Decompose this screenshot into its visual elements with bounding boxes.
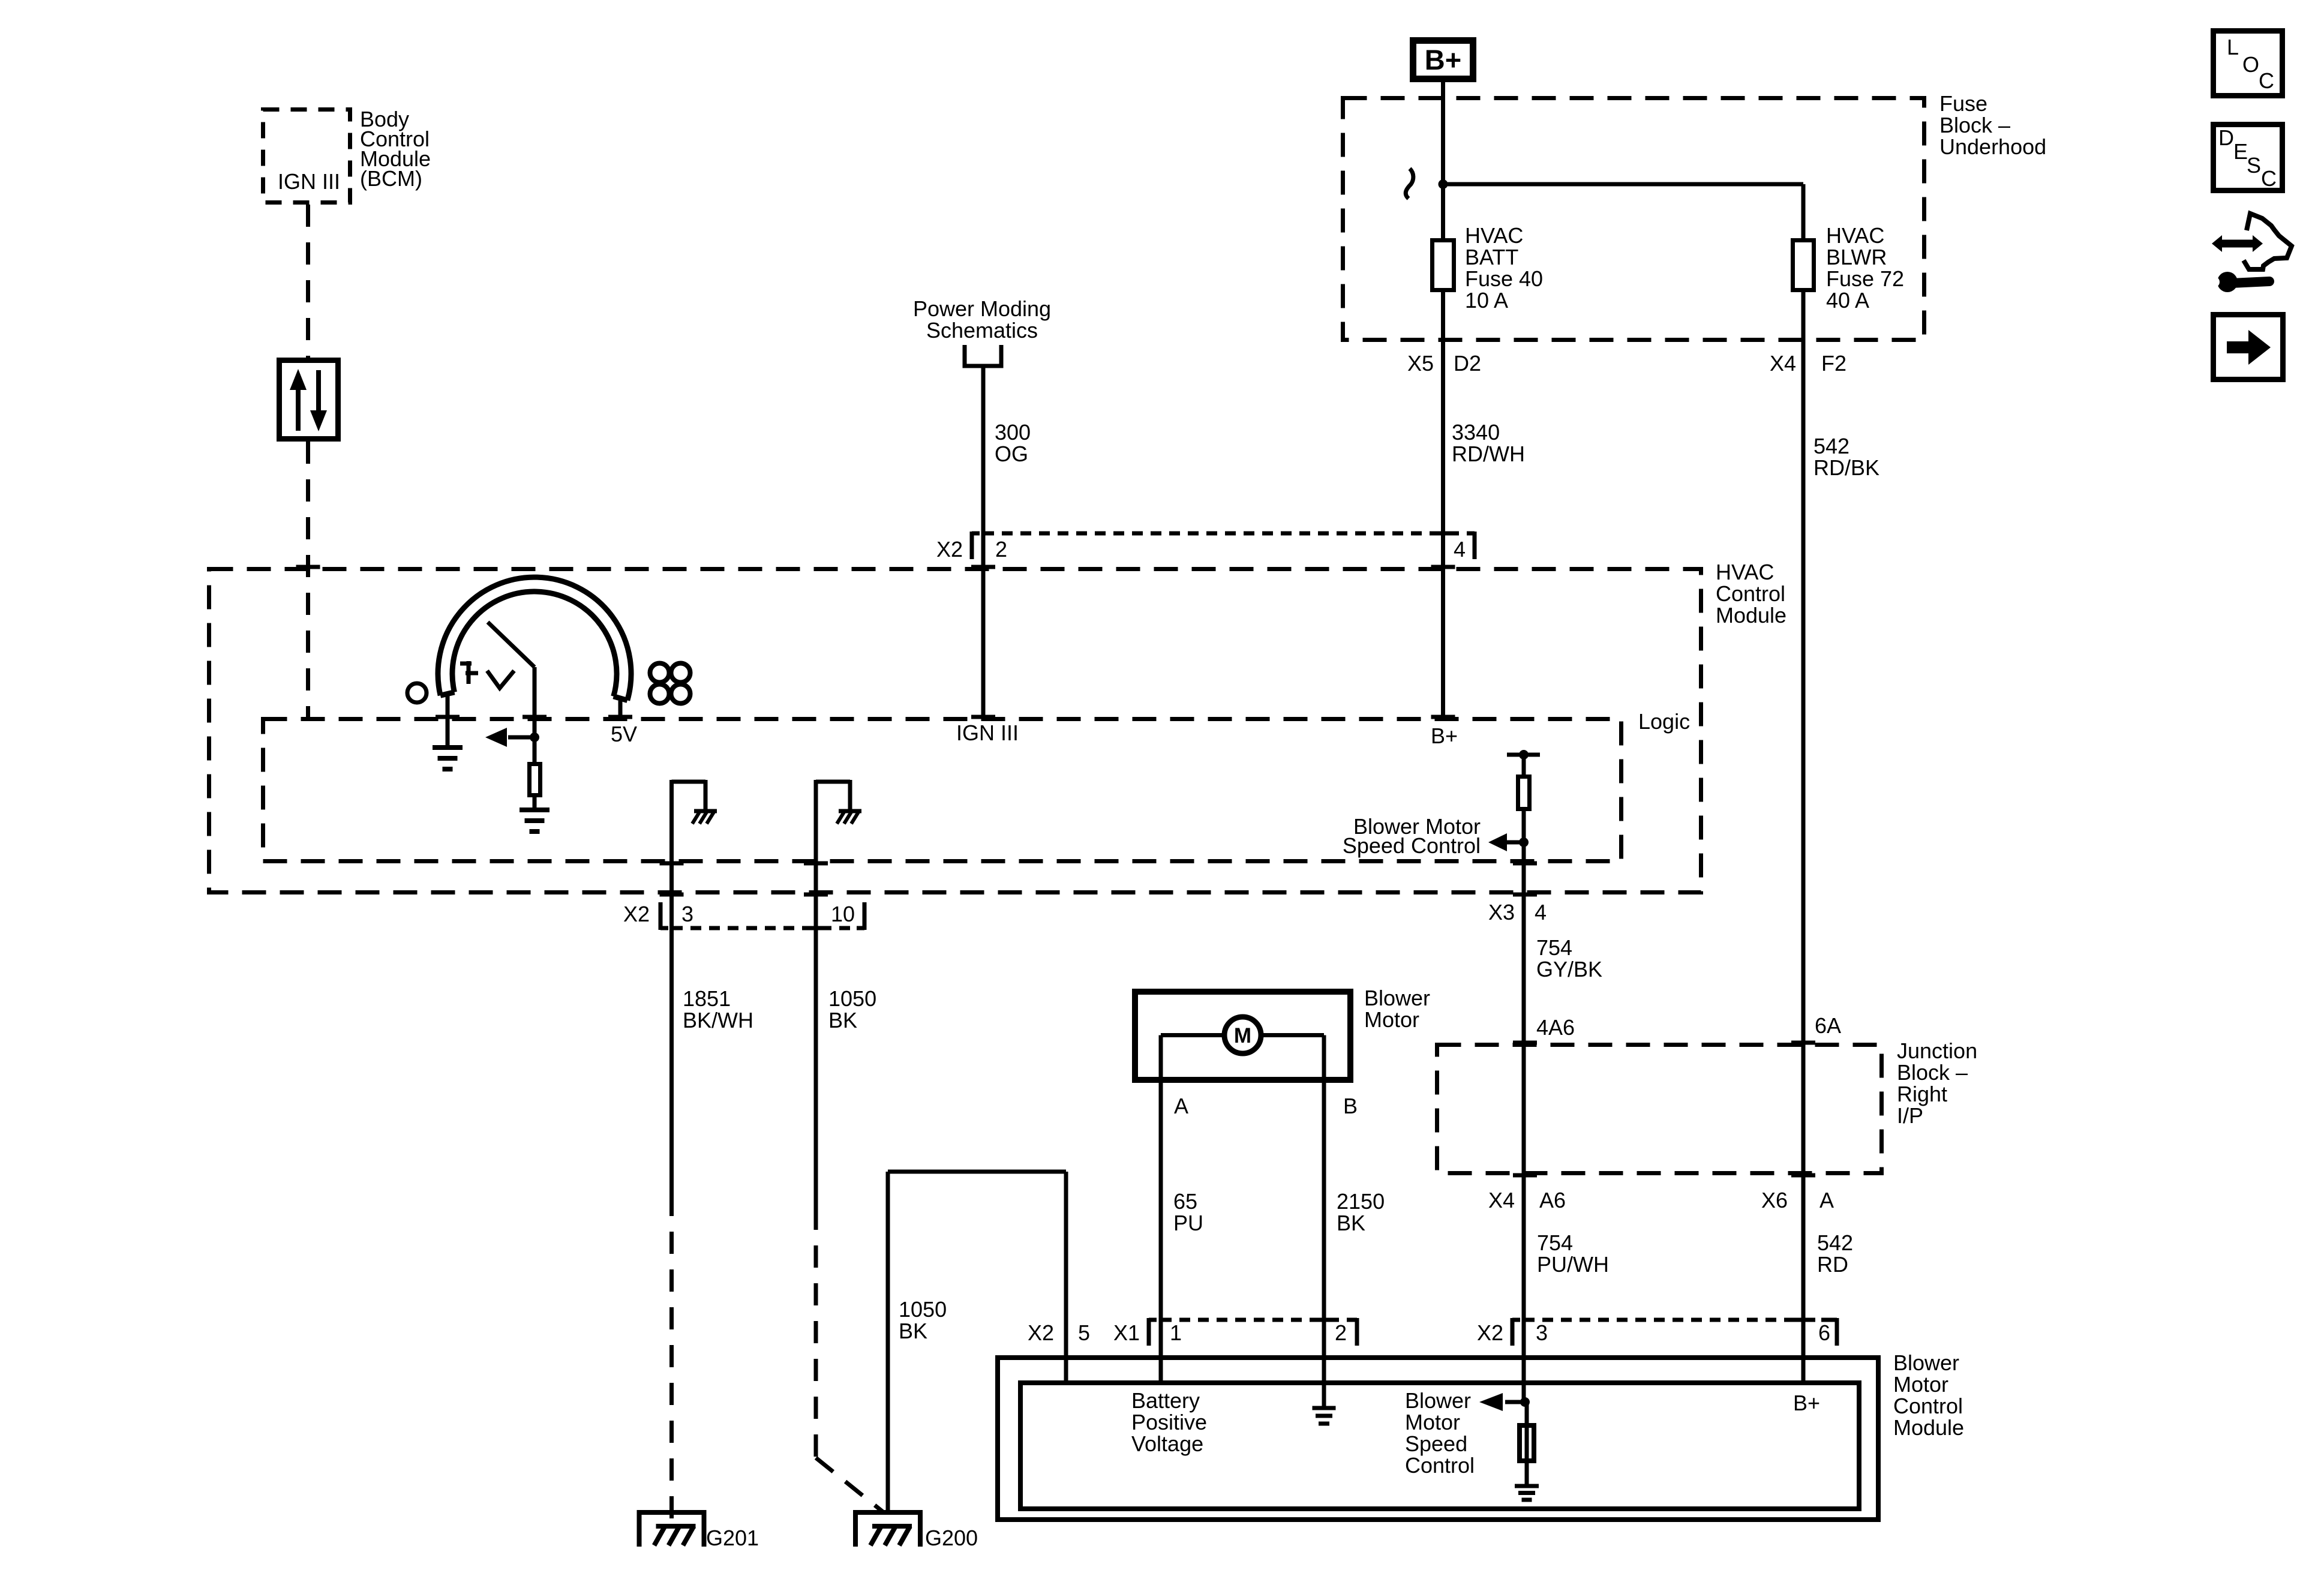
svg-text:X6: X6	[1761, 1188, 1788, 1212]
svg-text:Voltage: Voltage	[1131, 1431, 1203, 1456]
label Battery Positive Voltage	[1131, 1388, 1207, 1456]
label Body Control Module (BCM)	[360, 107, 431, 191]
ground: BMCM speed control	[1515, 1486, 1539, 1500]
svg-text:X1: X1	[1113, 1320, 1140, 1345]
connector X2 pin row 3/10 (dotted line)	[672, 926, 859, 930]
svg-text:S: S	[2247, 153, 2261, 178]
wire: circuit 1851 dashed to G201	[669, 1194, 674, 1526]
fan icon (high speed)	[650, 664, 690, 704]
internal B+ rail stub	[1507, 750, 1540, 760]
svg-text:Block –: Block –	[1939, 113, 2010, 137]
svg-text:RD: RD	[1817, 1252, 1848, 1277]
label B+ (BMCM)	[1793, 1391, 1820, 1415]
module box: HVAC Control Module, dashed	[209, 567, 1701, 894]
wire: circuit 3340 from fuse 40 to HVAC control module B+	[1441, 292, 1445, 717]
svg-text:Fuse 40: Fuse 40	[1465, 266, 1543, 291]
label IGN III at logic input	[956, 721, 1019, 745]
svg-text:BK/WH: BK/WH	[683, 1008, 753, 1032]
wire: knob common to ground	[446, 696, 450, 748]
connector label X4 (fuse block)	[1770, 351, 1796, 376]
connector X2 pin row 3/6 (dotted line)	[1524, 1318, 1830, 1322]
svg-text:6: 6	[1818, 1320, 1830, 1345]
svg-text:IGN III: IGN III	[956, 721, 1019, 745]
svg-text:X2: X2	[1477, 1320, 1503, 1345]
arrow: wiper signal out	[485, 728, 535, 747]
svg-text:X3: X3	[1488, 900, 1515, 924]
connector bracket right (X2-6)	[1829, 1318, 1837, 1346]
pin 1 label	[1170, 1320, 1182, 1345]
svg-text:3340: 3340	[1452, 420, 1500, 445]
arrow: blower motor speed control signal	[1488, 833, 1524, 851]
wire label 65 PU	[1173, 1189, 1203, 1235]
svg-text:Positive: Positive	[1131, 1410, 1207, 1434]
pin 2 label	[995, 537, 1007, 562]
svg-text:Motor: Motor	[1893, 1372, 1948, 1397]
svg-text:2150: 2150	[1337, 1189, 1385, 1214]
label Blower Motor Speed Control (BMCM)	[1405, 1388, 1475, 1478]
pin 3 label	[681, 902, 693, 926]
svg-text:L: L	[2227, 35, 2239, 59]
svg-text:X4: X4	[1770, 351, 1796, 376]
svg-text:B+: B+	[1425, 44, 1461, 76]
module box: Blower Motor Control Module (inner)	[1020, 1383, 1859, 1509]
svg-text:5V: 5V	[611, 722, 637, 746]
wire: circuit 1050 solid run	[814, 780, 818, 1208]
label Power Moding Schematics	[913, 296, 1051, 343]
arrow: speed control signal (BMCM)	[1479, 1393, 1525, 1411]
pin 4A6 label	[1536, 1015, 1575, 1040]
svg-text:D: D	[2218, 125, 2234, 150]
label HVAC BLWR Fuse 72 40 A	[1826, 223, 1904, 313]
svg-text:2: 2	[1335, 1320, 1347, 1345]
connector label X5	[1407, 351, 1434, 376]
label B+ at logic input	[1431, 724, 1458, 748]
icon: adjust-with-tool (hand and wrench)	[2204, 214, 2292, 292]
svg-text:C: C	[2259, 68, 2274, 93]
wire: circuit 754 blower motor speed control	[1522, 811, 1526, 1402]
svg-text:D2: D2	[1454, 351, 1481, 376]
svg-text:4A6: 4A6	[1536, 1015, 1575, 1040]
junction dot speed control	[1519, 837, 1529, 847]
svg-text:BATT: BATT	[1465, 245, 1518, 269]
svg-text:PU: PU	[1173, 1211, 1203, 1235]
ground G201	[637, 1512, 707, 1547]
svg-text:Battery: Battery	[1131, 1388, 1200, 1413]
svg-text:754: 754	[1536, 935, 1572, 960]
pin 6A label	[1815, 1013, 1841, 1038]
connector label X4 (junction block)	[1488, 1188, 1515, 1212]
svg-text:B+: B+	[1431, 724, 1458, 748]
wire: B+ feed into fuse block	[1441, 82, 1445, 238]
wire label 542 RD	[1817, 1230, 1853, 1277]
svg-text:Schematics: Schematics	[926, 318, 1038, 343]
pin A label	[1174, 1094, 1188, 1118]
svg-text:G200: G200	[925, 1526, 978, 1550]
icon: arrow box	[2214, 315, 2283, 380]
svg-text:65: 65	[1173, 1189, 1197, 1214]
module box: Fuse Block - Underhood, dashed	[1343, 98, 1924, 340]
connector X2 pin row (dotted line)	[983, 532, 1462, 536]
module box: Blower Motor Control Module (outer)	[998, 1358, 1878, 1520]
symbol: off-page connector bracket	[963, 345, 1004, 366]
junction dot at B+ splice	[1439, 179, 1448, 189]
pin F2 label	[1821, 351, 1846, 376]
svg-text:10 A: 10 A	[1465, 288, 1508, 313]
wire label 300 OG	[995, 420, 1031, 466]
svg-text:Block –: Block –	[1897, 1060, 1968, 1085]
svg-text:IGN III: IGN III	[278, 169, 340, 194]
connector bracket left (X2-3)	[660, 902, 668, 930]
pin 4 label	[1454, 537, 1466, 562]
wire label 1050 BK	[828, 986, 876, 1032]
pin A label	[1819, 1188, 1834, 1212]
svg-text:5: 5	[1078, 1320, 1090, 1345]
connector bracket left	[972, 532, 980, 559]
wire: rail to resistor	[1522, 755, 1526, 775]
svg-text:GY/BK: GY/BK	[1536, 957, 1602, 981]
wire label 3340 RD/WH	[1452, 420, 1525, 466]
pin D2 label	[1454, 351, 1481, 376]
svg-text:542: 542	[1813, 434, 1849, 458]
wire: splice to HVAC BLWR fuse	[1443, 184, 1804, 238]
svg-text:X4: X4	[1488, 1188, 1515, 1212]
svg-text:X5: X5	[1407, 351, 1434, 376]
wire: dashed from BCM IGN III output	[306, 205, 310, 358]
svg-text:X2: X2	[1028, 1320, 1054, 1345]
svg-text:300: 300	[995, 420, 1031, 445]
connector bracket left (X1-1)	[1149, 1318, 1157, 1346]
module box: Blower Motor	[1135, 992, 1350, 1080]
ground: logic ground 1 (circuit 1851)	[672, 780, 717, 824]
knob glyph V	[487, 671, 514, 688]
pin B label	[1343, 1094, 1358, 1118]
pin 4 label (X3)	[1535, 900, 1547, 924]
resistor: blower speed control pull-up	[1518, 777, 1530, 809]
svg-text:Fuse 72: Fuse 72	[1826, 266, 1904, 291]
svg-text:1050: 1050	[828, 986, 876, 1011]
svg-text:BK: BK	[828, 1008, 857, 1032]
pin 5 label	[1078, 1320, 1090, 1345]
wire: circuit 1050 from blower motor control module ground	[888, 1172, 1066, 1512]
svg-text:C: C	[2261, 166, 2277, 191]
label Blower Motor Speed Control	[1343, 814, 1481, 858]
wire label 542 RD/BK	[1813, 434, 1879, 480]
ground: BMCM motor return	[1313, 1408, 1336, 1424]
icon: LOC box	[2214, 31, 2283, 96]
wire: motor terminal B circuit 2150	[1261, 1035, 1324, 1407]
label X2	[936, 537, 963, 562]
fuse F72: HVAC BLWR Fuse 72 40A	[1793, 241, 1814, 290]
svg-text:3: 3	[681, 902, 693, 926]
svg-text:754: 754	[1537, 1230, 1573, 1255]
label Junction Block - Right I/P	[1897, 1038, 1977, 1128]
svg-text:Speed: Speed	[1405, 1431, 1467, 1456]
svg-text:Blower: Blower	[1405, 1388, 1471, 1413]
ground: logic ground 2 (circuit 1050)	[816, 780, 861, 824]
svg-text:40 A: 40 A	[1826, 288, 1869, 313]
svg-text:RD/BK: RD/BK	[1813, 455, 1879, 480]
wire label 2150 BK	[1337, 1189, 1385, 1235]
svg-text:1050: 1050	[899, 1297, 947, 1322]
svg-text:BLWR: BLWR	[1826, 245, 1887, 269]
connector label X3	[1488, 900, 1515, 924]
svg-text:A: A	[1819, 1188, 1834, 1212]
label 5V	[611, 722, 637, 746]
svg-text:HVAC: HVAC	[1716, 560, 1774, 584]
pin 10 label	[831, 902, 855, 926]
label Blower Motor	[1364, 986, 1430, 1032]
label HVAC Control Module	[1716, 560, 1786, 628]
ground: knob common	[433, 748, 463, 769]
wire: BMCM resistor to ground	[1525, 1402, 1529, 1484]
svg-text:Speed Control: Speed Control	[1343, 833, 1481, 858]
svg-text:Junction: Junction	[1897, 1038, 1977, 1063]
pin A6 label	[1539, 1188, 1566, 1212]
svg-text:HVAC: HVAC	[1465, 223, 1523, 248]
label HVAC BATT Fuse 40 10 A	[1465, 223, 1543, 313]
ground G200	[853, 1512, 923, 1547]
pin 6 label	[1818, 1320, 1830, 1345]
svg-text:Logic: Logic	[1638, 709, 1690, 734]
svg-text:Control: Control	[1405, 1453, 1475, 1478]
wire: dashed to HVAC control module	[306, 442, 310, 717]
splice curl symbol	[1406, 169, 1413, 199]
pin 3 label (BMCM)	[1536, 1320, 1548, 1345]
label IGN III (BCM internal net)	[278, 169, 340, 194]
wire label 754 PU/WH	[1537, 1230, 1609, 1277]
resistor: BMCM speed control pull-down	[1520, 1425, 1534, 1461]
symbol: serial data two-way arrows box	[280, 361, 338, 439]
svg-text:1: 1	[1170, 1320, 1182, 1345]
wire: circuit 542 from fuse 72 to junction block	[1801, 292, 1806, 1380]
wire label 1851 BK/WH	[683, 986, 753, 1032]
wire label 754 GY/BK	[1536, 935, 1602, 981]
wire: circuit 1851 solid run	[669, 780, 674, 1194]
connector bracket right (X1-2)	[1349, 1318, 1357, 1346]
label G201	[706, 1526, 759, 1550]
junction dot on wiper wire	[530, 733, 539, 742]
svg-text:A6: A6	[1539, 1188, 1566, 1212]
svg-text:3: 3	[1536, 1320, 1548, 1345]
svg-text:Underhood: Underhood	[1939, 134, 2046, 159]
svg-text:E: E	[2233, 139, 2248, 164]
svg-text:Power Moding: Power Moding	[913, 296, 1051, 321]
svg-text:10: 10	[831, 902, 855, 926]
svg-text:Control: Control	[1716, 581, 1785, 606]
knob: blower speed dial arc	[438, 577, 631, 700]
label X1	[1113, 1320, 1140, 1345]
pin 2 label	[1335, 1320, 1347, 1345]
svg-text:OG: OG	[995, 442, 1028, 466]
svg-text:Blower: Blower	[1364, 986, 1430, 1010]
resistor: knob pull-down	[530, 764, 541, 795]
label X2 (pins 3/6)	[1477, 1320, 1503, 1345]
svg-text:BK: BK	[899, 1319, 927, 1343]
svg-text:RD/WH: RD/WH	[1452, 442, 1525, 466]
svg-text:M: M	[1234, 1024, 1251, 1047]
svg-text:X2: X2	[623, 902, 650, 926]
knob glyph low-speed	[460, 661, 478, 684]
motor M1: blower motor	[1224, 1017, 1261, 1053]
svg-text:Module: Module	[1716, 603, 1786, 628]
svg-text:I/P: I/P	[1897, 1103, 1923, 1128]
connector bracket right (X2-10)	[857, 902, 864, 930]
icon: DESC box	[2214, 125, 2283, 191]
svg-text:A: A	[1174, 1094, 1188, 1118]
svg-text:Right: Right	[1897, 1082, 1947, 1106]
svg-text:B+: B+	[1793, 1391, 1820, 1415]
svg-text:2: 2	[995, 537, 1007, 562]
svg-text:Module: Module	[1893, 1415, 1964, 1440]
svg-text:(BCM): (BCM)	[360, 166, 422, 191]
module box: Body Control Module (BCM), dashed	[263, 110, 350, 203]
wire: circuit 1050 dashed to G200	[816, 1208, 884, 1512]
ground: knob resistor	[520, 810, 550, 831]
svg-text:Motor: Motor	[1405, 1410, 1460, 1434]
fuse F40: HVAC BATT Fuse 40 10A	[1433, 241, 1454, 290]
label Blower Motor Control Module	[1893, 1350, 1964, 1440]
connector label X2 pin 5	[1028, 1320, 1054, 1345]
wire: motor terminal A circuit 65	[1161, 1035, 1224, 1381]
svg-text:X2: X2	[936, 537, 963, 562]
svg-text:B: B	[1343, 1094, 1358, 1118]
label Fuse Block - Underhood	[1939, 91, 2046, 159]
svg-text:542: 542	[1817, 1230, 1853, 1255]
svg-text:F2: F2	[1821, 351, 1846, 376]
svg-text:6A: 6A	[1815, 1013, 1841, 1038]
svg-text:BK: BK	[1337, 1211, 1365, 1235]
knob OFF position circle	[407, 683, 427, 703]
wire label 1050 BK (lower)	[899, 1297, 947, 1343]
knob pointer (wiper)	[488, 622, 535, 762]
svg-text:O: O	[2242, 52, 2259, 77]
svg-text:4: 4	[1535, 900, 1547, 924]
svg-text:Motor: Motor	[1364, 1007, 1419, 1032]
module box: Junction Block - Right I/P, dashed	[1437, 1043, 1882, 1175]
connector X1 pin row (dotted line)	[1161, 1318, 1350, 1322]
label X2 (pins 3/10)	[623, 902, 650, 926]
svg-text:1851: 1851	[683, 986, 731, 1011]
junction dot BMCM speed control	[1520, 1397, 1530, 1407]
svg-text:Fuse: Fuse	[1939, 91, 1987, 116]
label G200	[925, 1526, 978, 1550]
label Logic	[1638, 709, 1690, 734]
svg-text:G201: G201	[706, 1526, 759, 1550]
connector bracket left (X2-3)	[1512, 1318, 1520, 1346]
wire: resistor to ground	[533, 797, 537, 811]
module box: Logic, dashed	[263, 717, 1622, 863]
svg-text:HVAC: HVAC	[1826, 223, 1884, 248]
wire: knob 5V feed	[618, 701, 623, 717]
wire: IGN III voltage circuit 300	[981, 368, 986, 717]
svg-text:PU/WH: PU/WH	[1537, 1252, 1609, 1277]
svg-text:Blower: Blower	[1893, 1350, 1959, 1375]
svg-text:4: 4	[1454, 537, 1466, 562]
terminal B+ box	[1413, 41, 1473, 79]
connector bracket right	[1467, 532, 1475, 559]
connector label X6	[1761, 1188, 1788, 1212]
svg-text:Control: Control	[1893, 1394, 1963, 1418]
